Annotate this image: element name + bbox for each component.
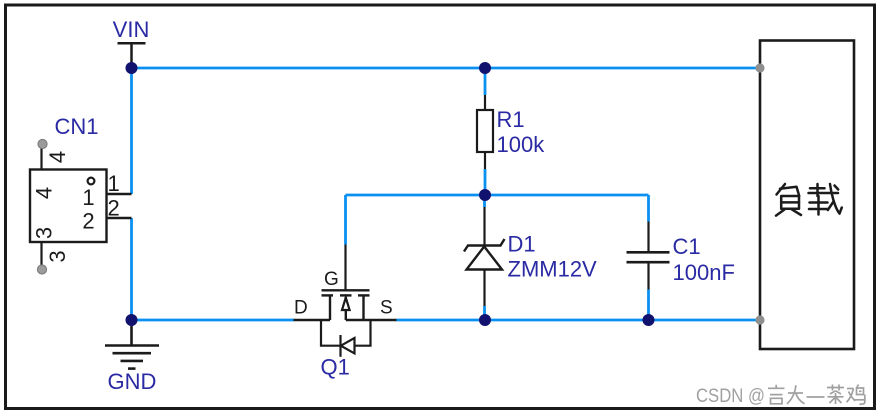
wire R1 top blue xyxy=(484,68,487,95)
svg-text:100k: 100k xyxy=(497,132,546,157)
transistor Q1 body diode xyxy=(321,320,371,357)
svg-text:GND: GND xyxy=(108,369,157,394)
wire CN1 pin 2 to GND rail xyxy=(130,218,133,320)
svg-text:3: 3 xyxy=(45,250,70,262)
resistor R1 designator xyxy=(497,107,525,132)
ground symbol xyxy=(105,322,159,369)
junction middle rail / R1 / D1 xyxy=(479,189,491,201)
CN1 pin 1 number xyxy=(108,171,120,196)
resistor R1 xyxy=(477,95,493,169)
watermark 大 xyxy=(787,385,805,404)
CN1 pin 1 indicator dot xyxy=(88,178,95,185)
svg-text:G: G xyxy=(324,269,339,290)
wire bottom rail right xyxy=(397,319,761,322)
watermark 吉 xyxy=(768,385,785,404)
CN1 pin 3 name xyxy=(32,227,57,239)
load connection dot bottom xyxy=(755,315,764,324)
zener D1 value ZMM12V xyxy=(508,257,598,282)
svg-text:100nF: 100nF xyxy=(673,260,735,285)
junction top rail / R1 xyxy=(479,62,491,74)
svg-text:3: 3 xyxy=(32,227,57,239)
transistor Q1 body arrow xyxy=(342,298,350,311)
watermark 鸡 xyxy=(847,385,865,405)
load label 载 (glyph paths) xyxy=(809,184,842,215)
svg-text:2: 2 xyxy=(108,195,120,220)
wire gate branch xyxy=(344,195,347,245)
svg-text:2: 2 xyxy=(82,209,94,234)
svg-text:CN1: CN1 xyxy=(55,114,99,139)
capacitor C1 value 100nF xyxy=(673,260,735,285)
resistor R1 value 100k xyxy=(497,132,546,157)
CN1 pin 3 lead xyxy=(37,242,46,274)
CN1 pin 2 number xyxy=(108,195,120,220)
junction bottom rail / C1 xyxy=(643,314,655,326)
wire C1 top branch xyxy=(647,195,650,222)
svg-text:D: D xyxy=(294,298,308,319)
svg-text:D1: D1 xyxy=(508,232,536,257)
wire VIN to CN1 pin 1 xyxy=(130,68,133,194)
capacitor C1 xyxy=(627,222,670,290)
CN1 pin 4 number xyxy=(45,151,70,163)
transistor Q1 gate pin xyxy=(344,245,346,291)
load connection dot top xyxy=(755,63,764,72)
watermark 菜 xyxy=(827,385,844,405)
CN1 pin 2 lead xyxy=(107,217,132,219)
svg-text:S: S xyxy=(380,298,393,319)
CN1 pin 4 lead xyxy=(38,139,47,169)
load label 负 (glyph paths) xyxy=(776,184,801,216)
CN1 pin 3 number xyxy=(45,250,70,262)
transistor Q1 source label S xyxy=(380,298,393,319)
svg-text:Q1: Q1 xyxy=(321,355,350,380)
svg-text:C1: C1 xyxy=(673,234,701,259)
net label GND xyxy=(108,369,157,394)
transistor Q1 body xyxy=(294,290,397,320)
svg-text:1: 1 xyxy=(82,185,94,210)
svg-text:VIN: VIN xyxy=(113,17,150,42)
transistor Q1 designator xyxy=(321,355,350,380)
net label VIN xyxy=(113,17,150,42)
load block (负载) xyxy=(760,41,854,350)
zener diode D1 xyxy=(464,195,505,320)
wire R1 bottom blue xyxy=(484,169,487,195)
CN1 pin 2 name xyxy=(82,209,94,234)
CN1 pin 1 name xyxy=(82,185,94,210)
junction node VIN xyxy=(126,62,138,74)
junction node GND xyxy=(126,314,138,326)
svg-text:4: 4 xyxy=(32,187,57,199)
wire bottom rail left xyxy=(132,319,295,322)
svg-text:R1: R1 xyxy=(497,107,525,132)
connector CN1 body xyxy=(30,170,107,243)
wire top rail xyxy=(132,67,761,70)
watermark CSDN @ xyxy=(696,385,765,406)
capacitor C1 designator xyxy=(673,234,701,259)
wire C1 bottom branch xyxy=(647,290,650,321)
svg-text:ZMM12V: ZMM12V xyxy=(508,257,598,282)
zener D1 designator xyxy=(508,232,536,257)
transistor Q1 drain label D xyxy=(294,298,308,319)
power symbol VIN xyxy=(118,43,146,64)
svg-text:4: 4 xyxy=(45,151,70,163)
CN1 pin 1 lead xyxy=(107,193,132,195)
transistor Q1 gate label G xyxy=(324,269,339,290)
svg-text:1: 1 xyxy=(108,171,120,196)
watermark 一 xyxy=(807,396,825,398)
junction bottom rail / D1 xyxy=(479,314,491,326)
wire middle rail xyxy=(346,194,649,197)
svg-text:CSDN @: CSDN @ xyxy=(696,385,765,406)
connector CN1 label xyxy=(55,114,99,139)
CN1 pin 4 name xyxy=(32,187,57,199)
